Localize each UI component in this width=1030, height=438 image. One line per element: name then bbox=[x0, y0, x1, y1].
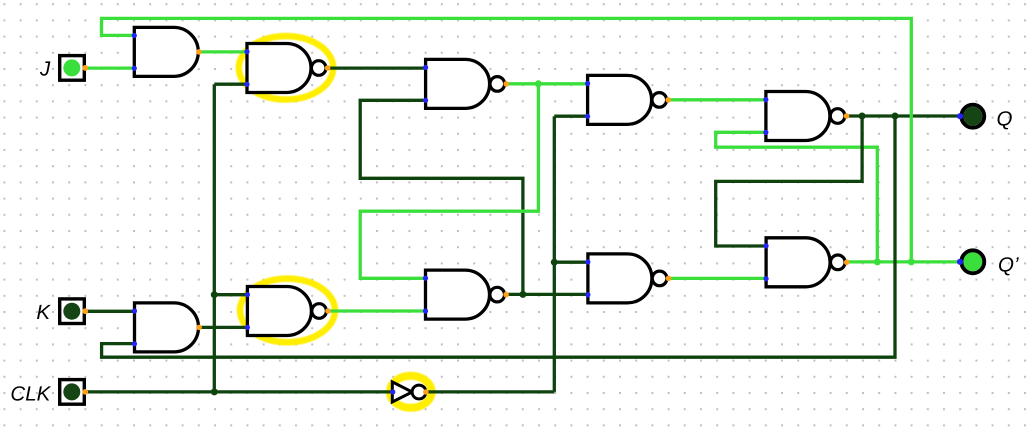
label K bbox=[36, 301, 51, 324]
junction CLK riser and U10 input bbox=[211, 291, 218, 298]
label J bbox=[39, 57, 51, 80]
highlight ellipse around NAND U10 bbox=[240, 279, 335, 343]
wire CLK vertical riser x=214 bbox=[213, 84, 216, 392]
svg-text:Q’: Q’ bbox=[998, 254, 1019, 277]
wire U1 output to U2 upper input bbox=[199, 50, 247, 53]
junction CLK pin line and riser bbox=[211, 388, 218, 395]
wire U3 output to U4 upper input bbox=[506, 82, 587, 85]
wire Q feedback to U9 lower input bbox=[102, 116, 895, 357]
wire CLK riser to U2 lower input bbox=[214, 83, 246, 86]
output pin Q bbox=[957, 105, 984, 128]
wire inverter output to node CLKB bbox=[426, 390, 554, 393]
wire K pin to U9 upper input bbox=[86, 310, 134, 313]
wire U9 output to U10 lower input bbox=[199, 326, 247, 329]
label Q bbox=[997, 108, 1013, 131]
wire CLK riser to U10 upper input bbox=[214, 293, 247, 296]
wire J pin to U1 lower input bbox=[86, 66, 134, 69]
wire U2 output to U3 upper input bbox=[328, 66, 425, 69]
wire CLKB to U7 upper input bbox=[554, 261, 587, 264]
wire CLK pin to inverter input bbox=[86, 390, 392, 393]
junction Q wire and U6 feedback bbox=[859, 113, 866, 120]
wire U7 output to U6 lower input bbox=[668, 277, 766, 280]
gate port markers bbox=[132, 33, 850, 347]
label CLK bbox=[10, 382, 51, 405]
highlight ellipse around NAND U2 bbox=[239, 36, 333, 99]
NAND gate U4 (slave steering) bbox=[588, 75, 667, 124]
NAND gate U2 (master J, highlighted) bbox=[247, 44, 326, 93]
junction Q' wire and U5 feedback bbox=[874, 258, 881, 265]
inverter port markers bbox=[390, 389, 429, 395]
wire U8 output feedback to U3 lower input bbox=[360, 100, 523, 294]
wire Q' top feedback to U1 upper input bbox=[102, 18, 912, 262]
wire CLKB vertical riser x=554 bbox=[553, 116, 556, 392]
junction Q' wire and top feedback bbox=[908, 258, 915, 265]
junction U3 output and U8 feed bbox=[535, 80, 542, 87]
svg-text:J: J bbox=[39, 57, 51, 80]
wire U10 output to U8 lower input bbox=[328, 309, 425, 312]
wire U6 output to pin Q' bbox=[846, 260, 960, 263]
NAND gate U7 (slave steering) bbox=[588, 254, 667, 303]
NAND gate U5 (output latch Q) bbox=[766, 92, 845, 141]
NAND gate U3 (master latch) bbox=[426, 59, 505, 108]
junction Q wire and U9 feedback bbox=[892, 113, 899, 120]
junction CLKB riser and U7 input bbox=[551, 259, 558, 266]
input pin J bbox=[60, 56, 88, 81]
highlight ellipse around inverter U11 bbox=[390, 376, 432, 408]
wire Q feedback to U6 upper input bbox=[716, 116, 862, 246]
wire U4 output to U5 upper input bbox=[668, 98, 766, 101]
wire node at U3 output down to U8 upper input bbox=[360, 84, 538, 278]
NAND gate U6 (output latch Q') bbox=[766, 238, 845, 287]
NAND gate U8 (master latch) bbox=[426, 270, 505, 319]
wire Q' feedback to U5 lower input bbox=[716, 132, 878, 262]
wire U8 output to U7 lower input bbox=[506, 293, 587, 296]
NAND gate U10 (master K, highlighted) bbox=[247, 287, 326, 336]
wire U5 output to pin Q bbox=[846, 114, 960, 117]
svg-text:K: K bbox=[36, 301, 51, 324]
input pin K bbox=[60, 299, 88, 324]
svg-text:Q: Q bbox=[997, 108, 1013, 131]
junction U8 output and feedback to U3 bbox=[519, 291, 526, 298]
input pin CLK bbox=[60, 380, 88, 405]
output pin Q' bbox=[957, 250, 984, 273]
wire CLKB to U4 lower input bbox=[554, 115, 587, 118]
inverter U11 (clock) bbox=[392, 382, 426, 402]
AND gate U9 (K input) bbox=[135, 303, 199, 352]
AND gate U1 (J input) bbox=[134, 27, 198, 76]
svg-text:CLK: CLK bbox=[10, 382, 51, 405]
label Q' bbox=[998, 254, 1019, 277]
